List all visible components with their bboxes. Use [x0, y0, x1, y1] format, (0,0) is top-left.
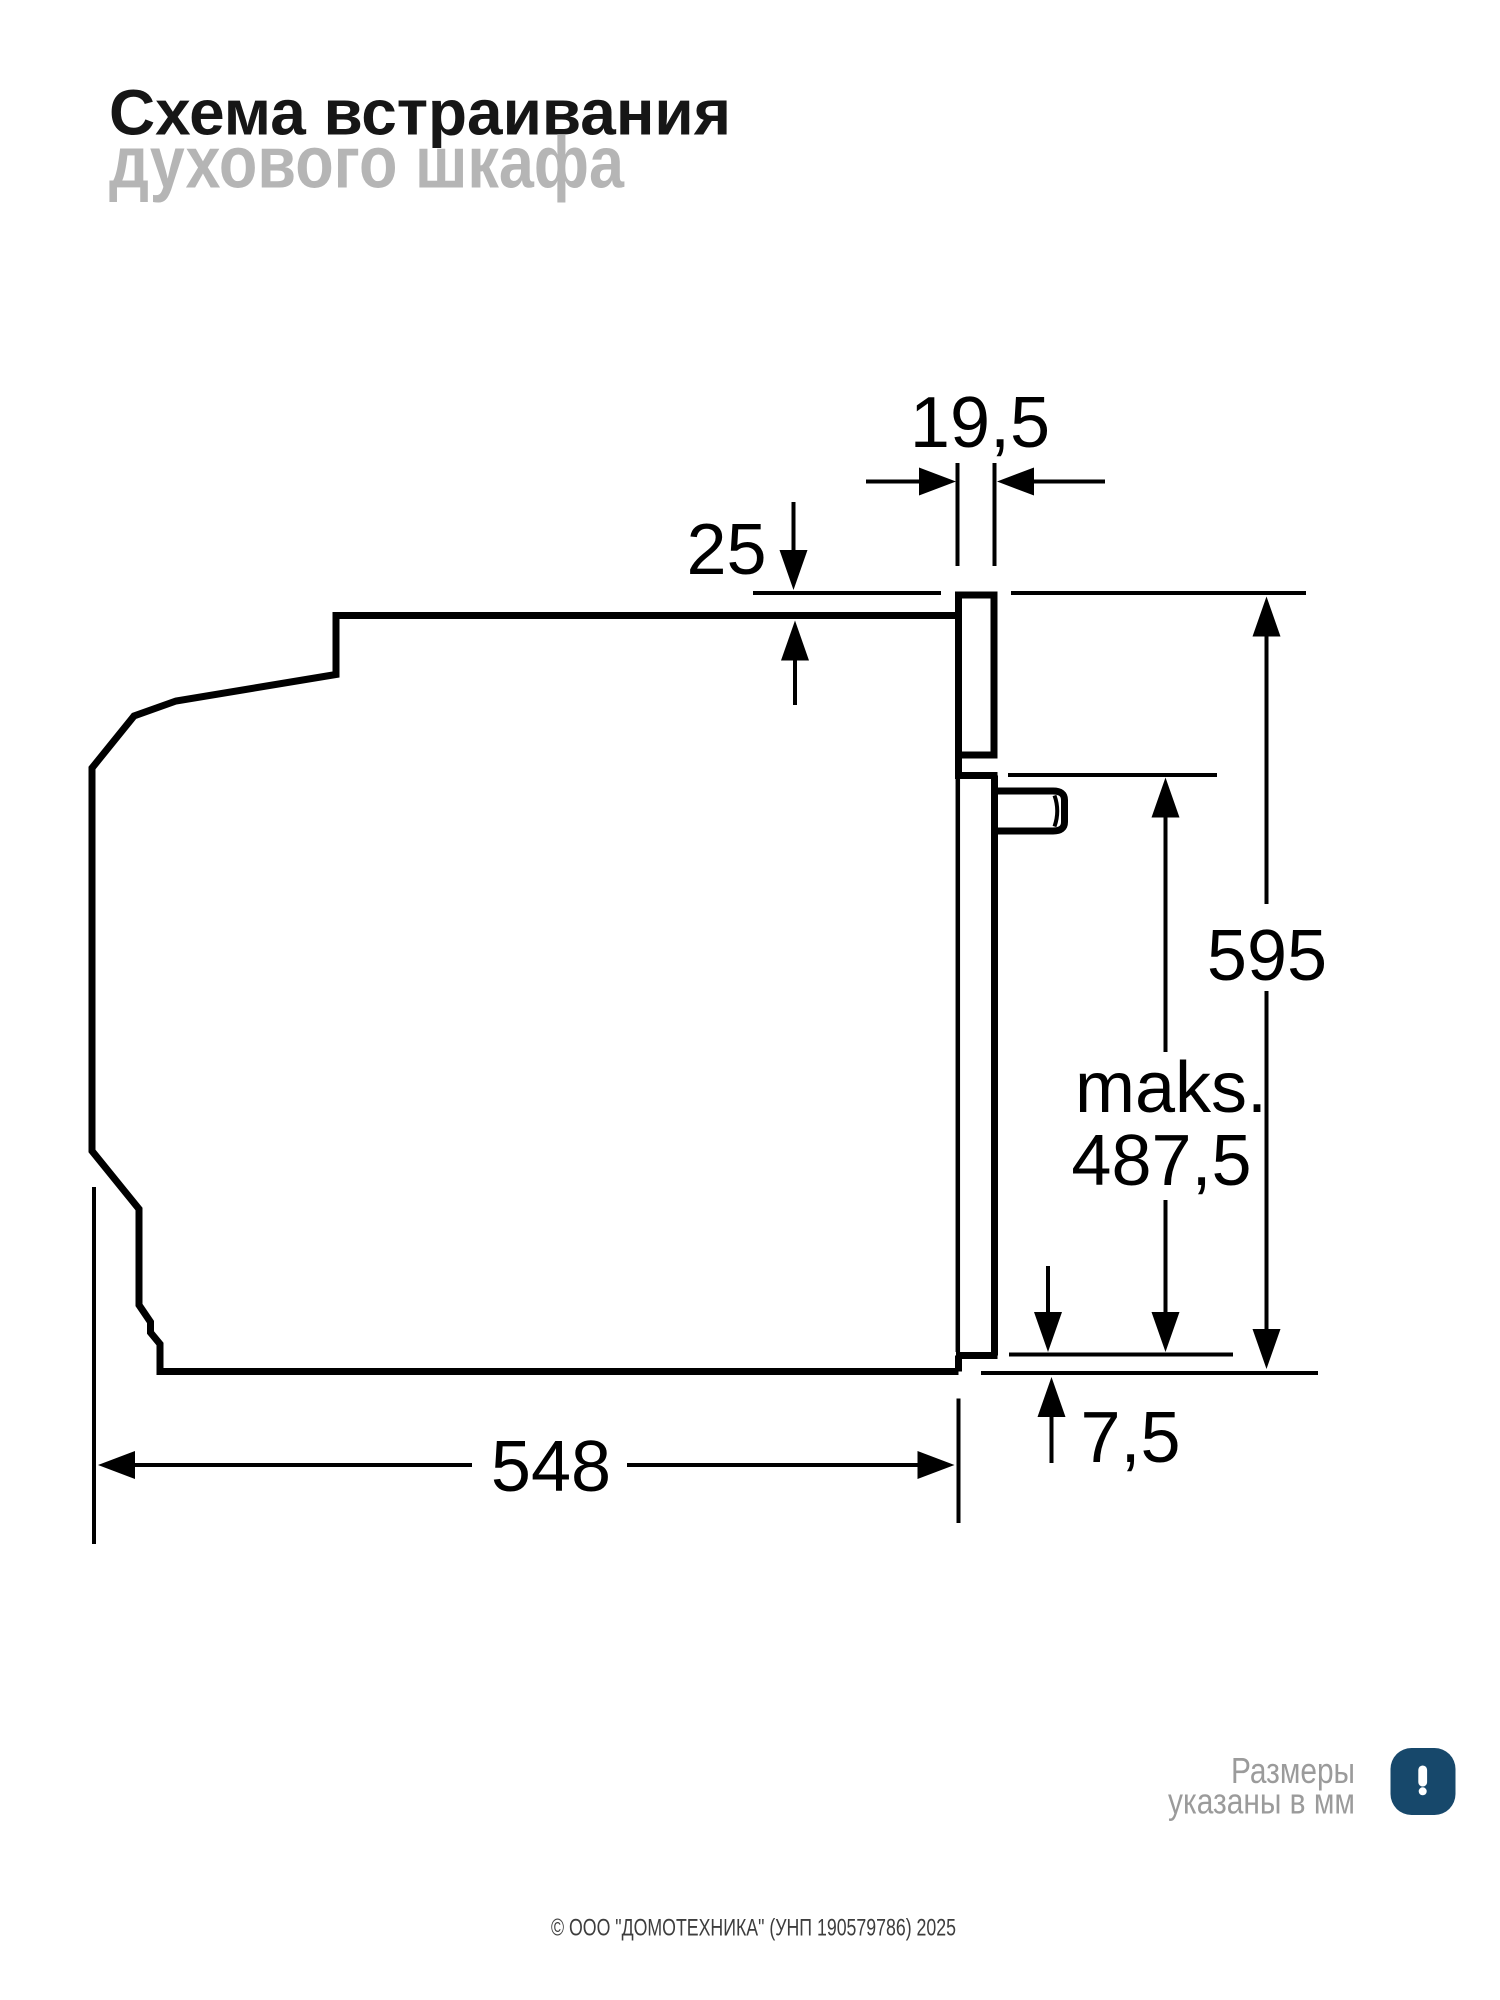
dim 19,5 left shaft [866, 480, 920, 484]
oven body outline [92, 616, 959, 1372]
dim 595 top arrowhead [1253, 597, 1281, 637]
svg-text:595: 595 [1207, 916, 1327, 996]
bottom niche line A [1009, 1353, 1233, 1357]
info icon squircle [1391, 1748, 1456, 1815]
dim 19,5 right shaft [1034, 480, 1105, 484]
dim 487,5 top arrowhead [1152, 778, 1180, 818]
cabinet niche line below knob [1008, 773, 1217, 777]
dim 7,5 down shaft [1046, 1266, 1050, 1316]
dim 487,5 upper shaft [1164, 817, 1168, 1052]
dim 19,5 right arrowhead [997, 468, 1034, 496]
dim 548 right extension line [957, 1399, 961, 1524]
svg-text:25: 25 [686, 510, 766, 590]
info icon exclamation bar [1418, 1766, 1427, 1787]
dim 548 left shaft [134, 1463, 472, 1467]
dim 25 down shaft [792, 502, 796, 552]
dim 548 right arrowhead [918, 1451, 955, 1479]
oven door upper panel [959, 595, 995, 755]
dim 595 lower shaft [1265, 991, 1269, 1363]
dim 25 up shaft [793, 660, 797, 705]
dim 487,5 bottom arrowhead [1152, 1312, 1180, 1352]
dim 595 upper shaft [1265, 636, 1269, 904]
info icon exclamation dot [1419, 1787, 1427, 1795]
dim 19,5 left arrowhead [919, 468, 956, 496]
door ledge [955, 772, 998, 779]
bottom niche line B [981, 1371, 1318, 1375]
svg-text:487,5: 487,5 [1071, 1121, 1251, 1201]
door front wall [956, 779, 961, 1352]
dim 19,5 right extension tick [993, 463, 997, 566]
door neck left wall [955, 755, 962, 776]
dim 19,5 left extension tick [956, 463, 960, 566]
door back wall [991, 776, 998, 1356]
dim 548 left extension line [92, 1187, 96, 1544]
dim 7,5 up shaft [1050, 1416, 1054, 1463]
dim 548 left arrowhead [98, 1451, 135, 1479]
svg-text:19,5: 19,5 [910, 383, 1050, 463]
dim 548 right shaft [627, 1463, 918, 1467]
cabinet top line left segment [753, 591, 941, 595]
svg-text:указаны в мм: указаны в мм [1168, 1781, 1355, 1822]
cabinet top line right segment [1011, 591, 1306, 595]
dim 595 bottom arrowhead [1253, 1329, 1281, 1369]
dim 7,5 up arrowhead [1038, 1377, 1066, 1417]
door bottom step [955, 1356, 962, 1372]
dim 487,5 lower shaft [1164, 1200, 1168, 1346]
svg-text:7,5: 7,5 [1080, 1398, 1180, 1478]
svg-text:духового шкафа: духового шкафа [109, 123, 625, 204]
knob inner arc [1055, 796, 1058, 827]
dim 25 up arrowhead [781, 621, 809, 661]
svg-text:© ООО "ДОМОТЕХНИКА" (УНП 19057: © ООО "ДОМОТЕХНИКА" (УНП 190579786) 2025 [551, 1915, 956, 1942]
svg-text:548: 548 [491, 1427, 611, 1507]
dim 25 down arrowhead [780, 550, 808, 590]
door bottom cap [956, 1352, 998, 1359]
door handle knob [995, 791, 1065, 831]
dim 7,5 down arrowhead [1034, 1312, 1062, 1352]
svg-text:maks.: maks. [1075, 1048, 1267, 1128]
